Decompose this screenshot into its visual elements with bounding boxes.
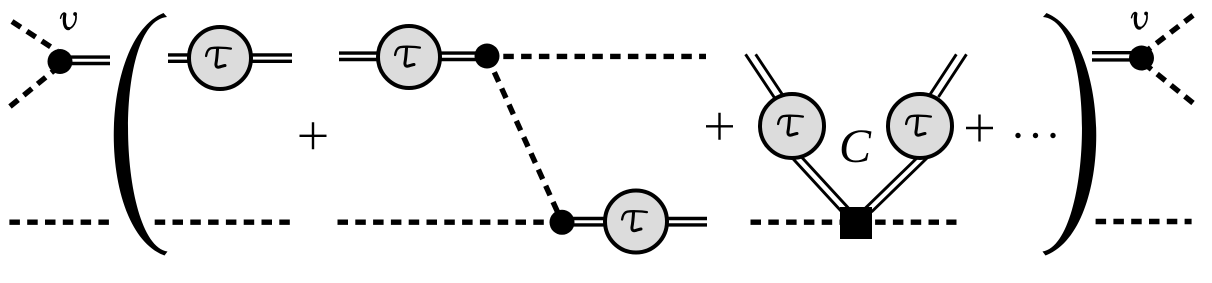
- svg-text:C: C: [839, 120, 872, 173]
- label tau (blob 1): [206, 48, 231, 68]
- label v (right): [1132, 12, 1149, 29]
- wire: bottom dashed nucleon line (far right): [1096, 219, 1192, 224]
- node: term2 lower dot: [550, 210, 575, 235]
- wire: dashed pion leg lower-right: [1146, 65, 1193, 103]
- right parenthesis: [1043, 13, 1097, 256]
- wire: double line into left vertex: [60, 57, 110, 63]
- wire: left arm double line lower segment (term 3): [785, 150, 852, 212]
- wire: dashed pion leg lower-left: [10, 71, 54, 107]
- blob tau 4: [760, 94, 824, 158]
- left parenthesis: [114, 13, 168, 256]
- wire: bottom dashed nucleon line (term 3): [751, 219, 957, 224]
- node: left vertex dot: [48, 49, 73, 74]
- ellipsis dots: [1015, 133, 1020, 138]
- wire: left arm double line upper stub (term 3): [746, 54, 791, 106]
- blob tau 2: [378, 26, 440, 88]
- blob tau 1: [189, 27, 251, 89]
- wire: top dashed pion line (term 2): [503, 54, 706, 59]
- wire: dashed pion leg upper-left: [12, 22, 57, 52]
- node: right vertex dot: [1129, 46, 1154, 71]
- label tau (blob 3): [622, 211, 647, 231]
- operator + (2): [706, 113, 733, 140]
- wire: diagonal dashed pion exchange: [487, 56, 562, 222]
- blob tau 3: [605, 191, 667, 253]
- wire: right arm double line lower segment (term 3): [861, 158, 927, 212]
- label tau (blob 4): [778, 116, 803, 136]
- wire: bottom dashed nucleon line (term 2): [338, 219, 553, 224]
- contact vertex C (black square): [840, 207, 872, 239]
- node: term2 upper dot: [475, 44, 500, 69]
- wire: double line through tau blob 1: [168, 55, 292, 61]
- wire: dashed pion leg upper-right: [1146, 15, 1193, 51]
- wire: bottom dashed nucleon line (term 1): [155, 219, 290, 224]
- operator + (1): [300, 122, 327, 149]
- operator + (3): [966, 115, 993, 142]
- label tau (blob 2): [395, 47, 420, 67]
- label tau (blob 5): [906, 116, 931, 136]
- wire: bottom dashed nucleon line (far left): [9, 219, 109, 224]
- wire: double line out of tau blob 3: [562, 219, 707, 225]
- wire: right arm double line upper stub (term 3): [928, 54, 966, 97]
- wire: double line out of right vertex: [1092, 53, 1142, 60]
- wire: double line into tau blob 2: [339, 53, 487, 59]
- label v (left): [61, 12, 78, 29]
- blob tau 5: [888, 94, 952, 158]
